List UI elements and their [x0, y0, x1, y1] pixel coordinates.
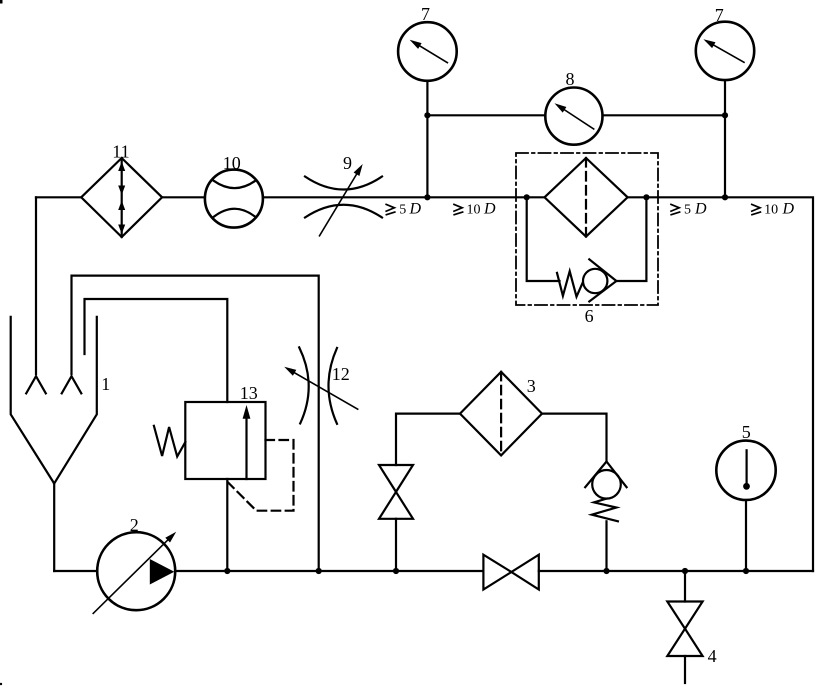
svg-text:5: 5: [684, 203, 691, 218]
svg-text:8: 8: [566, 69, 575, 89]
svg-text:D: D: [694, 201, 707, 218]
svg-text:9: 9: [343, 153, 352, 173]
svg-text:6: 6: [585, 306, 594, 326]
svg-text:10: 10: [467, 203, 481, 218]
svg-text:13: 13: [240, 383, 258, 403]
svg-text:10: 10: [764, 203, 778, 218]
svg-text:3: 3: [527, 376, 536, 396]
svg-text:4: 4: [708, 646, 717, 666]
svg-text:5: 5: [742, 422, 751, 442]
svg-text:7: 7: [421, 4, 430, 24]
svg-text:7: 7: [715, 5, 724, 25]
svg-text:12: 12: [332, 364, 350, 384]
svg-text:11: 11: [112, 142, 129, 162]
svg-text:1: 1: [101, 374, 110, 394]
svg-text:D: D: [782, 201, 795, 218]
svg-text:5: 5: [399, 203, 406, 218]
svg-text:D: D: [483, 201, 496, 218]
svg-text:D: D: [409, 201, 422, 218]
svg-text:10: 10: [223, 153, 241, 173]
svg-text:2: 2: [130, 515, 139, 535]
